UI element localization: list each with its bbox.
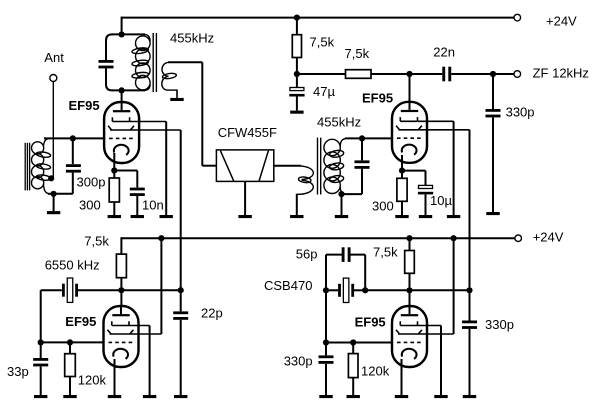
svg-text:120k: 120k [78,373,107,388]
svg-text:330p: 330p [506,104,535,119]
svg-text:+24V: +24V [546,14,577,29]
svg-text:EF95: EF95 [355,315,386,330]
svg-text:EF95: EF95 [65,314,96,329]
svg-text:6550 kHz: 6550 kHz [45,258,100,273]
svg-text:56p: 56p [296,247,318,262]
svg-text:10µ: 10µ [430,193,452,208]
svg-text:22n: 22n [433,45,455,60]
svg-text:Ant: Ant [44,50,64,65]
svg-text:EF95: EF95 [362,91,393,106]
svg-text:7,5k: 7,5k [345,46,370,61]
svg-text:455kHz: 455kHz [317,115,361,130]
svg-text:22p: 22p [201,306,223,321]
svg-text:7,5k: 7,5k [373,244,398,259]
svg-text:CFW455F: CFW455F [218,125,277,140]
svg-text:10n: 10n [142,198,164,213]
svg-text:7,5k: 7,5k [84,234,109,249]
svg-text:330p: 330p [485,317,514,332]
svg-text:33p: 33p [7,364,29,379]
svg-text:+24V: +24V [533,230,564,245]
svg-text:EF95: EF95 [69,98,100,113]
svg-text:300: 300 [79,198,101,213]
svg-text:47µ: 47µ [313,84,335,99]
svg-text:330p: 330p [284,354,313,369]
svg-text:CSB470: CSB470 [264,278,312,293]
svg-text:300p: 300p [77,174,106,189]
svg-text:ZF 12kHz: ZF 12kHz [533,66,589,81]
svg-text:300: 300 [372,199,394,214]
svg-text:455kHz: 455kHz [170,30,214,45]
svg-text:7,5k: 7,5k [310,35,335,50]
svg-text:120k: 120k [361,364,390,379]
